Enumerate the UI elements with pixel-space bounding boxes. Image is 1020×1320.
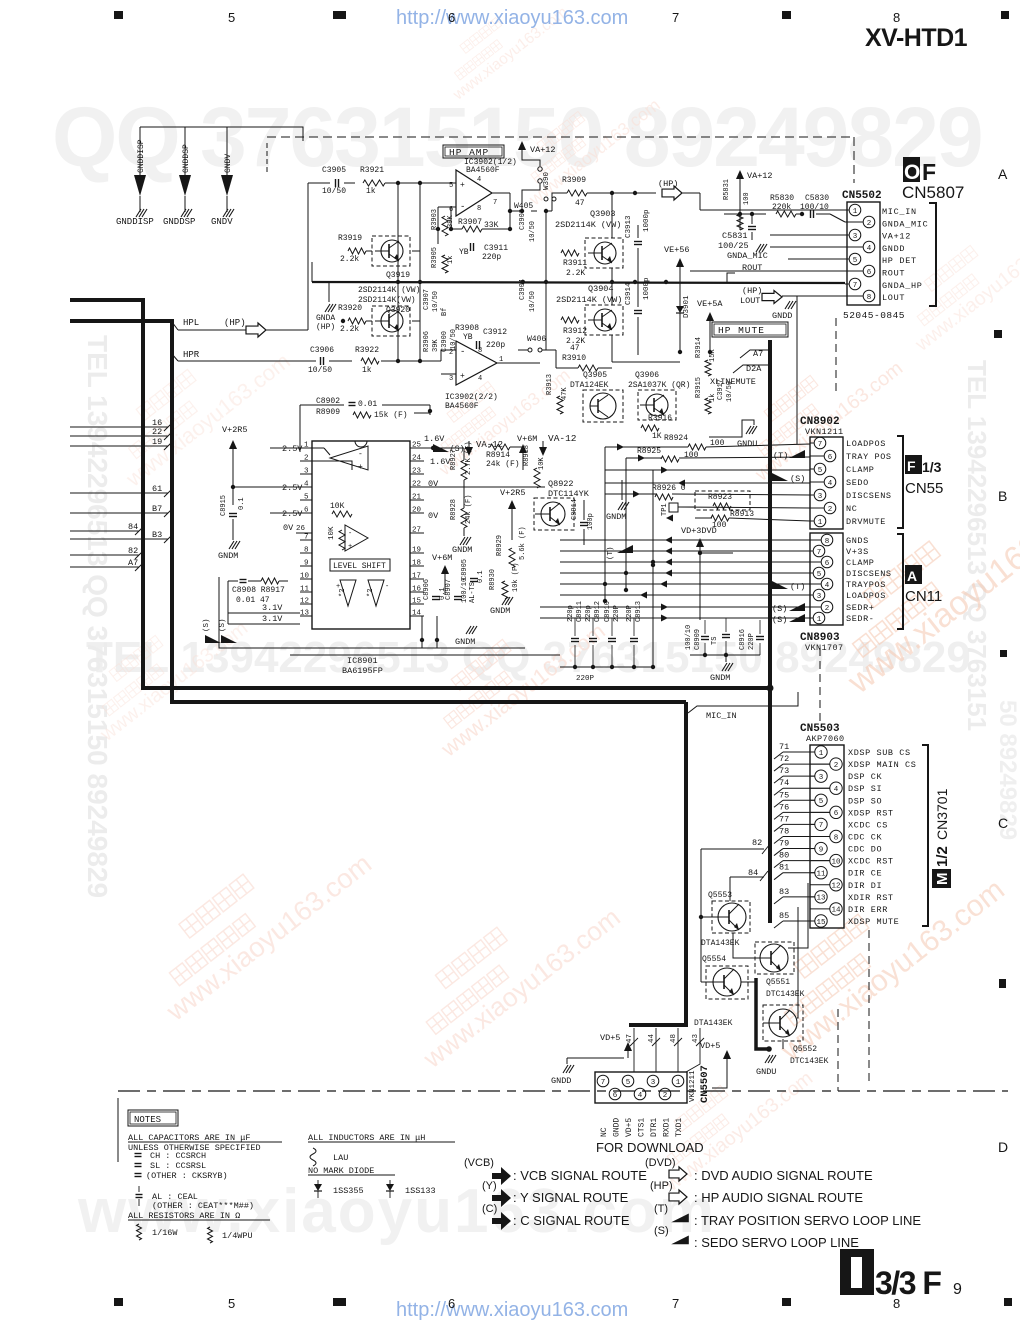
svg-text:220p: 220p [567, 605, 575, 622]
svg-text:GNDA: GNDA [316, 314, 335, 323]
svg-text:SL : CCSRSL: SL : CCSRSL [150, 1161, 206, 1171]
pin CN5502-5 [845, 258, 849, 260]
wire bottom frame 2 [290, 654, 560, 656]
wire CN5503 79 [774, 849, 783, 856]
svg-text:100/10: 100/10 [461, 578, 469, 603]
pin IC8901-11 [300, 591, 312, 593]
svg-text:Q3905: Q3905 [583, 371, 607, 380]
svg-text:VKN1211: VKN1211 [805, 427, 844, 437]
svg-text:5: 5 [304, 494, 309, 502]
svg-text:17: 17 [412, 573, 421, 581]
svg-text:http://www.xiaoyu163.com: http://www.xiaoyu163.com [396, 7, 628, 29]
svg-text:2: 2 [304, 455, 309, 463]
svg-text:5: 5 [853, 257, 858, 265]
svg-text:: DVD AUDIO SIGNAL ROUTE: : DVD AUDIO SIGNAL ROUTE [694, 1168, 873, 1183]
ground GNDM 3 [466, 626, 471, 634]
svg-text:GNDV: GNDV [211, 217, 233, 227]
wire top-left bracket [140, 127, 303, 141]
svg-text:CN5502: CN5502 [842, 190, 882, 202]
svg-text:C8916: C8916 [739, 629, 747, 650]
pin CN5503-1 [810, 751, 815, 753]
svg-text:Q5554: Q5554 [702, 955, 726, 964]
svg-text:1: 1 [304, 442, 309, 450]
svg-text:CTS1: CTS1 [638, 1118, 647, 1137]
svg-text:MIC_IN: MIC_IN [706, 711, 737, 721]
svg-text:GNDA_HP: GNDA_HP [882, 281, 923, 291]
svg-text:XDSP RST: XDSP RST [848, 808, 894, 818]
svg-text:C3905: C3905 [322, 166, 346, 175]
svg-text:V+6M: V+6M [432, 553, 452, 563]
wire mid verticals [699, 556, 701, 620]
HP AMP title box [443, 145, 504, 158]
ground GNDM mid [460, 537, 465, 545]
ground flag GNDV [221, 127, 234, 217]
power V+2R5 left [232, 448, 234, 505]
svg-text:(T): (T) [607, 546, 615, 560]
(S) mark cn8902 [772, 473, 788, 481]
svg-text:C8911: C8911 [576, 601, 584, 622]
svg-text:220k: 220k [772, 203, 791, 212]
ground gnda_mic [756, 244, 761, 252]
svg-text:(S): (S) [772, 615, 787, 625]
svg-text:XDSP MUTE: XDSP MUTE [848, 917, 899, 927]
svg-text:DSP CK: DSP CK [848, 772, 883, 782]
svg-text:C8912: C8912 [594, 601, 602, 622]
pin CN5503-6 [810, 811, 830, 813]
svg-text:+: + [358, 463, 363, 472]
wire CN5503 80 [774, 861, 783, 868]
svg-text:R3921: R3921 [360, 166, 384, 175]
svg-text:6: 6 [834, 810, 839, 818]
svg-text:BA4560F: BA4560F [445, 402, 479, 411]
svg-text:1.6V: 1.6V [424, 434, 445, 444]
svg-text:6: 6 [825, 560, 830, 568]
svg-text:9: 9 [819, 846, 824, 854]
pin IC8901-14 [410, 615, 424, 617]
svg-text:7: 7 [672, 1296, 679, 1311]
svg-text:C3911: C3911 [484, 244, 508, 253]
wires cn8902 rows [605, 446, 688, 448]
svg-text:1k: 1k [366, 187, 376, 196]
svg-text:48: 48 [670, 1034, 678, 1043]
svg-text:R3908: R3908 [455, 324, 479, 333]
svg-text:10/50: 10/50 [308, 366, 332, 375]
svg-text:7: 7 [818, 441, 823, 449]
svg-text:GNDD: GNDD [551, 1076, 571, 1086]
svg-text:10K: 10K [538, 457, 546, 470]
wires IC8901 left [233, 486, 300, 488]
pin CN5503-9 [810, 848, 815, 850]
note AL [136, 1194, 143, 1196]
svg-text:2: 2 [663, 1092, 668, 1100]
svg-text:NC: NC [846, 504, 857, 514]
power VE+56 [679, 266, 681, 300]
svg-text:VE+56: VE+56 [664, 245, 690, 255]
svg-text:R5830: R5830 [770, 194, 794, 203]
pin CN8902-1 [810, 520, 814, 522]
bracket CN8903 [897, 534, 903, 629]
svg-text:R3910: R3910 [562, 354, 586, 363]
wire MIC_IN [688, 692, 798, 713]
svg-text:5: 5 [819, 798, 824, 806]
svg-text:44: 44 [648, 1033, 656, 1043]
svg-text:R5831: R5831 [723, 179, 731, 200]
svg-text:5: 5 [228, 1296, 235, 1311]
pin CN8902-3 [810, 494, 814, 496]
pin IC8901-5 [300, 499, 312, 501]
opamp inside IC8901 top [330, 446, 368, 470]
svg-text:24k (F): 24k (F) [465, 495, 473, 524]
svg-text:11: 11 [300, 586, 310, 594]
svg-text:F: F [922, 159, 936, 185]
pin IC8901-24 [410, 460, 424, 462]
svg-text:39K: 39K [432, 339, 440, 352]
pin IC8901-27 [410, 532, 424, 534]
svg-text:AL-TS: AL-TS [469, 582, 477, 603]
svg-text:Q3904: Q3904 [588, 284, 614, 294]
svg-text:GNDDISP: GNDDISP [116, 217, 154, 227]
svg-text:7: 7 [493, 199, 497, 207]
svg-text:LOUT: LOUT [882, 293, 905, 303]
svg-text:http://www.xiaoyu163.com: http://www.xiaoyu163.com [396, 1299, 628, 1320]
pin CN5507-6 [609, 1088, 621, 1100]
svg-text:R3903: R3903 [431, 209, 439, 230]
(T) mark cn8903 [772, 581, 788, 589]
svg-text:1K: 1K [652, 432, 662, 441]
svg-text:3: 3 [449, 375, 453, 383]
svg-text:26: 26 [296, 525, 306, 533]
svg-text:TRAY POS: TRAY POS [846, 452, 892, 462]
connector CN8903 [810, 533, 843, 625]
OF connector id [903, 157, 920, 182]
svg-text:8: 8 [867, 294, 872, 302]
wire stub B7 [70, 512, 168, 514]
power V+6M mid [444, 573, 446, 595]
pin CN5507-2 [659, 1088, 671, 1100]
svg-text:XDSP MAIN CS: XDSP MAIN CS [848, 760, 916, 770]
pin IC8901-23 [410, 473, 424, 475]
svg-text:12: 12 [831, 883, 840, 891]
wire CN5503 83 [774, 897, 783, 904]
svg-text:C8910: C8910 [604, 601, 612, 622]
svg-text:47: 47 [626, 1034, 634, 1043]
wire stub A7 [70, 566, 139, 568]
svg-text:100/10: 100/10 [800, 203, 829, 212]
ground GNDU top [709, 420, 754, 437]
pin CN8903-4 [810, 583, 821, 585]
pin CN8902-5 [810, 468, 814, 470]
svg-text:CN11: CN11 [905, 588, 942, 605]
svg-text:7: 7 [853, 282, 858, 290]
svg-text:-: - [358, 450, 363, 459]
test point TP1 [669, 503, 678, 512]
svg-text:R3919: R3919 [338, 234, 362, 243]
watermark pink cluster 1 [96, 317, 295, 492]
svg-text:R3909: R3909 [562, 176, 586, 185]
svg-text:DSP SI: DSP SI [848, 784, 882, 794]
note 1/4WPU [208, 1227, 213, 1243]
svg-text:CDC DO: CDC DO [848, 845, 882, 855]
svg-text:C3907: C3907 [423, 289, 431, 310]
svg-text:R3920: R3920 [338, 304, 362, 313]
svg-text:GNDU: GNDU [756, 1067, 776, 1077]
svg-text:HP AMP: HP AMP [449, 147, 489, 158]
svg-text:1/4WPU: 1/4WPU [222, 1231, 253, 1241]
svg-text:IC8901: IC8901 [347, 656, 378, 666]
wire stub 16 [70, 426, 168, 428]
svg-text:13: 13 [816, 895, 826, 903]
svg-text:GNDDSP: GNDDSP [182, 144, 191, 173]
svg-text:DISCSENS: DISCSENS [846, 569, 892, 579]
svg-text:75: 75 [779, 790, 789, 800]
svg-text:1: 1 [818, 519, 823, 527]
thin frame bottom-left of IC [219, 577, 525, 648]
svg-text:GNDDSP: GNDDSP [163, 217, 195, 227]
wire col x546 [545, 211, 547, 350]
pin IC8901-1 [300, 447, 312, 449]
svg-text:C8908 R8917: C8908 R8917 [232, 586, 285, 595]
svg-text:3: 3 [818, 493, 823, 501]
pin IC8901-12 [300, 603, 312, 605]
svg-text:(OTHER : CEAT***M##): (OTHER : CEAT***M##) [152, 1201, 254, 1211]
svg-text:3: 3 [304, 468, 309, 476]
svg-text:76: 76 [779, 802, 789, 812]
svg-text:220p: 220p [585, 605, 593, 622]
svg-text:C8909: C8909 [694, 629, 702, 650]
wire q3903 col [611, 193, 613, 238]
svg-text:XCDC RST: XCDC RST [848, 857, 894, 867]
pin IC8901-9 [300, 565, 312, 567]
svg-text:(HP): (HP) [650, 1180, 673, 1192]
svg-text:10k (F): 10k (F) [512, 563, 520, 592]
wire CN5503 85 [774, 921, 783, 928]
svg-text:R8913: R8913 [730, 510, 754, 519]
svg-text:W390: W390 [543, 171, 551, 190]
svg-text:CN5807: CN5807 [902, 183, 964, 202]
svg-text:9: 9 [953, 1281, 962, 1298]
dashed border vertical right [837, 1009, 839, 1091]
pin CN5507-1 [672, 1075, 684, 1087]
svg-text:XCDC CS: XCDC CS [848, 820, 888, 830]
pin CN5502-8 [845, 295, 863, 297]
transistor Q5551 [755, 942, 794, 974]
svg-text:C3904: C3904 [519, 279, 527, 300]
svg-text:47: 47 [575, 199, 585, 208]
wire CN5503 71 [774, 752, 783, 759]
svg-text:1: 1 [676, 1079, 681, 1087]
svg-text:10/50: 10/50 [529, 221, 537, 242]
transistor Q3920 [372, 306, 410, 336]
svg-text:B3: B3 [152, 530, 162, 540]
svg-text:DTA143EK: DTA143EK [694, 1019, 733, 1028]
svg-text:2SD2114K (VW): 2SD2114K (VW) [555, 220, 621, 230]
svg-text:GNDD: GNDD [772, 311, 792, 321]
wires cn8903 rows [560, 539, 810, 541]
LEVEL SHIFT box [330, 559, 390, 571]
svg-text:R8926 0: R8926 0 [652, 484, 686, 493]
pin CN5503-5 [810, 799, 815, 801]
pin IC8901-13 [300, 615, 312, 617]
svg-text:R8914: R8914 [486, 451, 510, 460]
svg-text:DIR ERR: DIR ERR [848, 905, 888, 915]
pin CN5503-10 [810, 860, 830, 862]
ground GNDM 2 [502, 597, 507, 605]
svg-text:www.xiaoyu163.com: www.xiaoyu163.com [911, 227, 1020, 356]
junction thick [767, 685, 774, 692]
svg-text:11: 11 [816, 871, 826, 879]
svg-text:16: 16 [412, 586, 422, 594]
svg-text:80: 80 [779, 851, 789, 861]
svg-text:GNDV: GNDV [224, 154, 233, 173]
svg-text:1/16W: 1/16W [152, 1228, 178, 1238]
svg-text:CDC CK: CDC CK [848, 832, 883, 842]
svg-text:C3900: C3900 [441, 331, 449, 352]
ground GNDD bottom [563, 1065, 568, 1073]
resistor R3912 [561, 317, 579, 323]
svg-text:HPL: HPL [183, 318, 199, 328]
svg-text:2.7K (F): 2.7K (F) [465, 441, 473, 475]
svg-text:Q3906: Q3906 [635, 371, 659, 380]
wire gndd cn5507 [566, 1058, 568, 1064]
resistor R8923 dashed [695, 491, 750, 510]
wire stub 61 [70, 492, 168, 494]
svg-text:: Y SIGNAL ROUTE: : Y SIGNAL ROUTE [513, 1190, 629, 1205]
pin CN8903-7 [810, 550, 813, 552]
pin CN5503-2 [810, 763, 830, 765]
svg-text:TEL 13942296513 QQ 3763151: TEL 13942296513 QQ 3763151 [962, 360, 992, 731]
svg-text:5: 5 [626, 1079, 631, 1087]
svg-text:(S): (S) [772, 604, 787, 614]
svg-text:BA4560F: BA4560F [466, 166, 500, 175]
svg-text:18: 18 [412, 560, 421, 568]
resistor R8913 [711, 515, 729, 521]
svg-text:VKN1211: VKN1211 [689, 1070, 697, 1102]
svg-text:4: 4 [834, 786, 839, 794]
svg-text:R3911: R3911 [563, 259, 587, 268]
svg-text:TRAYPOS: TRAYPOS [846, 580, 886, 590]
svg-text:: HP AUDIO SIGNAL ROUTE: : HP AUDIO SIGNAL ROUTE [694, 1190, 863, 1205]
wire CN5503 72 [774, 764, 783, 771]
svg-text:47: 47 [570, 344, 580, 353]
svg-text:DSP SO: DSP SO [848, 796, 882, 806]
power V+2R5 mid [511, 508, 513, 540]
svg-text:73: 73 [779, 766, 789, 776]
svg-text:6: 6 [448, 10, 455, 25]
svg-text:C3906: C3906 [310, 346, 334, 355]
note 1/16W [137, 1224, 142, 1240]
svg-text:D: D [998, 1139, 1008, 1155]
svg-text:21: 21 [412, 494, 422, 502]
svg-text:23: 23 [412, 468, 422, 476]
svg-text:VKN1707: VKN1707 [805, 643, 844, 653]
power VD+5 right [726, 1058, 728, 1064]
svg-text:4: 4 [638, 1092, 643, 1100]
svg-text:YB: YB [463, 333, 473, 342]
svg-text:R3913: R3913 [546, 374, 554, 395]
svg-text:A: A [998, 166, 1008, 182]
dashed segment x836 [835, 318, 837, 395]
ground GNDM left [229, 541, 234, 549]
svg-text:GNDS: GNDS [846, 536, 869, 546]
svg-text:7: 7 [304, 534, 309, 542]
wires transistor block [700, 849, 702, 982]
svg-text:2: 2 [825, 605, 830, 613]
watermark pink cluster 13 [638, 1038, 817, 1196]
svg-text:ALL RESISTORS ARE IN Ω: ALL RESISTORS ARE IN Ω [128, 1211, 240, 1221]
svg-text:72: 72 [779, 754, 789, 764]
svg-text:C: C [998, 815, 1008, 831]
svg-text:C3917: C3917 [717, 379, 725, 400]
svg-text:74: 74 [779, 778, 789, 788]
dashed vertical below CN5503 [868, 930, 870, 1086]
svg-text:14: 14 [412, 610, 422, 618]
pin CN5507-3 [647, 1075, 659, 1087]
svg-text:R8930: R8930 [489, 569, 497, 590]
svg-text:C5830: C5830 [805, 194, 829, 203]
note CH [135, 1153, 142, 1155]
svg-text:(T): (T) [773, 451, 788, 461]
watermark pink cluster 4 [415, 339, 574, 479]
svg-text:C3912: C3912 [483, 328, 507, 337]
svg-text:CN55: CN55 [905, 480, 943, 497]
svg-text:MIC_IN: MIC_IN [882, 207, 917, 217]
svg-text:83: 83 [779, 887, 789, 897]
svg-text:IC3902(2/2): IC3902(2/2) [445, 393, 498, 402]
svg-text:2.5V: 2.5V [282, 483, 303, 493]
wire thick mid bus [312, 282, 845, 283]
svg-text:100/25: 100/25 [718, 241, 749, 251]
svg-text:0.1: 0.1 [238, 497, 246, 510]
svg-text:2SD2114K(VW): 2SD2114K(VW) [358, 296, 416, 305]
svg-text:CH : CCSRCH: CH : CCSRCH [150, 1151, 206, 1161]
svg-text:GNDA_MIC: GNDA_MIC [727, 251, 768, 261]
svg-text:10/50: 10/50 [726, 381, 734, 402]
pin CN8902-2 [810, 507, 824, 509]
svg-text:22: 22 [412, 481, 421, 489]
svg-text:10K: 10K [328, 526, 336, 540]
pin IC8901-6 [300, 512, 312, 514]
svg-text:71: 71 [779, 742, 789, 752]
svg-text:GNDA_MIC: GNDA_MIC [882, 219, 928, 229]
svg-text:-: - [385, 583, 389, 591]
svg-text:(HP): (HP) [316, 323, 335, 332]
transistor Q5552 [763, 1005, 803, 1041]
svg-text:1SS133: 1SS133 [405, 1186, 436, 1196]
svg-text:LOADPOS: LOADPOS [846, 439, 886, 449]
pin CN8902-6 [810, 455, 824, 457]
wire stub 22 [70, 435, 168, 437]
svg-text:VA+12: VA+12 [747, 171, 773, 181]
svg-text:12: 12 [300, 598, 309, 606]
resistor R3911 [561, 250, 579, 256]
op-amp U1a [456, 170, 492, 216]
svg-text:+: + [348, 543, 352, 551]
svg-text:1k: 1k [447, 256, 455, 264]
svg-text:6: 6 [613, 1092, 618, 1100]
resistor W390 [522, 152, 540, 166]
wire thick Q5552 [756, 978, 769, 1049]
svg-text:Q5552: Q5552 [793, 1045, 817, 1054]
svg-text:1: 1 [817, 616, 822, 624]
svg-text:220P: 220P [626, 605, 634, 622]
pin CN5503-13 [810, 896, 815, 898]
svg-text:C3914: C3914 [625, 282, 633, 305]
bracket CN5503 [922, 745, 928, 926]
svg-text:(OTHER : CKSRYB): (OTHER : CKSRYB) [146, 1171, 228, 1181]
svg-text:(T): (T) [654, 1203, 668, 1215]
svg-text:HP MUTE: HP MUTE [718, 325, 765, 336]
pin CN5503-7 [810, 823, 815, 825]
